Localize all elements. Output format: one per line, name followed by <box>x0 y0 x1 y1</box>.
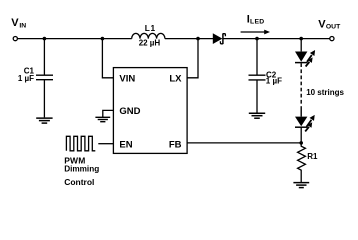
wire C2 to ground <box>256 80 258 113</box>
wire node A to C1 <box>43 39 45 75</box>
resistor R1 <box>298 143 306 182</box>
wire EN pin <box>98 143 113 145</box>
wire VIN pin branch <box>102 39 113 78</box>
node E: junction Vout/LED string <box>299 37 303 41</box>
LED D2 (top of string) <box>295 52 307 62</box>
wire LED cathode to FB node <box>300 127 302 143</box>
svg-text:L1: L1 <box>145 23 156 33</box>
wire LED string anode <box>300 39 302 52</box>
svg-text:22 µH: 22 µH <box>139 39 161 48</box>
svg-text:LX: LX <box>169 73 182 84</box>
inductor L1 <box>132 33 165 38</box>
svg-text:1 µF: 1 µF <box>266 77 282 86</box>
wire FB pin to R1 <box>187 142 301 144</box>
capacitor C2 <box>249 74 266 76</box>
node D: junction diode cathode/C2 <box>255 37 259 41</box>
svg-text:10 strings: 10 strings <box>306 88 344 97</box>
wire node D to C2 <box>256 39 258 75</box>
svg-text:GND: GND <box>119 106 140 117</box>
svg-text:FB: FB <box>169 139 182 150</box>
ground (C2) <box>249 113 265 118</box>
wire top rail right: diode cathode to Vout terminal <box>223 38 330 40</box>
svg-text:Dimming: Dimming <box>64 164 99 173</box>
wire top rail mid: inductor to diode anode <box>165 38 213 40</box>
wire LX pin branch <box>187 39 198 78</box>
svg-text:1 µF: 1 µF <box>18 74 34 83</box>
ground (GND pin) <box>95 117 110 121</box>
wire C1 to ground <box>43 80 45 118</box>
ground (R1) <box>293 183 309 188</box>
node A: junction Vin/C1 <box>43 37 47 41</box>
node C: junction LX/diode anode <box>196 37 200 41</box>
terminal VOUT (open circle) <box>330 37 334 41</box>
PWM source waveform <box>66 136 95 151</box>
ground (C1) <box>36 118 52 123</box>
svg-text:Control: Control <box>64 177 94 187</box>
svg-text:VIN: VIN <box>119 73 135 84</box>
wire GND pin branch <box>103 110 114 117</box>
svg-text:LED: LED <box>250 18 265 25</box>
svg-text:R1: R1 <box>307 152 318 161</box>
LED D3 (bottom of string) <box>295 117 307 127</box>
svg-text:OUT: OUT <box>326 23 341 30</box>
svg-text:EN: EN <box>119 139 132 150</box>
svg-text:IN: IN <box>19 23 26 30</box>
terminal VIN (open circle) <box>13 37 17 41</box>
node B: junction VIN pin branch <box>101 37 105 41</box>
wire dashed (LED string continues) <box>300 63 302 104</box>
IC U1 <box>113 68 187 154</box>
wire top rail left: Vin terminal to inductor <box>18 38 132 40</box>
capacitor C1 <box>36 74 53 76</box>
svg-text:V: V <box>11 17 19 29</box>
diode D1 (schottky) <box>213 33 223 44</box>
node F: junction FB/R1 <box>299 141 303 145</box>
ILED current arrow <box>241 31 266 33</box>
